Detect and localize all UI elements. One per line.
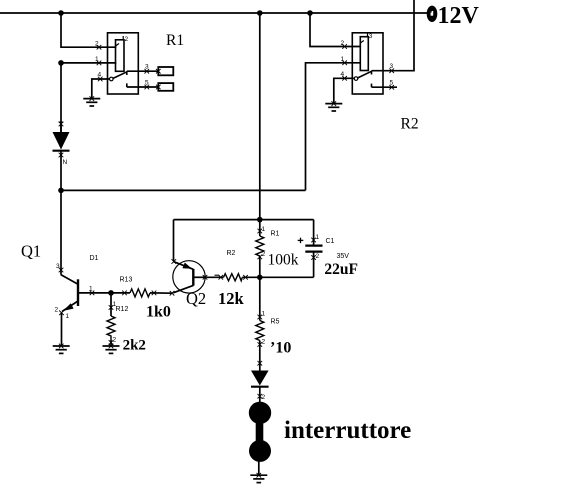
node junction dot at (61,62.9) — [58, 60, 64, 66]
interruttore switch symbol — [249, 402, 271, 424]
svg-text:4: 4 — [341, 71, 345, 78]
terminal pad rect pin5 — [158, 83, 173, 91]
wire Q2 emitter up to node — [173, 220, 175, 261]
svg-text:Q1: Q1 — [21, 242, 41, 261]
svg-text:1: 1 — [89, 286, 93, 293]
ground under R12 — [103, 346, 120, 353]
ground bottom — [250, 475, 267, 482]
pin x-mark R1 pin4 — [98, 77, 103, 82]
pin x-mark R1 pin3 — [145, 69, 150, 74]
svg-text:2: 2 — [95, 41, 99, 48]
ground under R1 pin4 — [83, 99, 100, 106]
wire to R1 coil pin1 — [61, 62, 116, 64]
svg-text:1: 1 — [262, 311, 266, 318]
wire vertical right from top edge to R2 pin3 — [392, 0, 414, 71]
svg-text:2: 2 — [262, 251, 266, 258]
capacitor C1 — [313, 220, 315, 245]
svg-text:interruttore: interruttore — [284, 417, 411, 444]
svg-text:R1: R1 — [166, 32, 184, 49]
svg-text:4: 4 — [98, 72, 102, 79]
wire rail to R2 coil pin2 — [310, 13, 360, 47]
svg-text:N: N — [63, 159, 68, 166]
wire down to Q1 collector — [60, 190, 62, 274]
resistor R2 12k horizontal — [207, 276, 224, 278]
svg-text:2: 2 — [113, 337, 117, 344]
svg-text:12V: 12V — [438, 3, 480, 29]
svg-text:1: 1 — [95, 56, 99, 63]
wire +12V top rail — [0, 12, 427, 14]
svg-text:2: 2 — [55, 307, 59, 314]
svg-text:35V: 35V — [337, 253, 350, 260]
wire node X horizontal — [174, 219, 314, 221]
svg-text:1: 1 — [341, 56, 345, 63]
relay R2 — [352, 33, 383, 94]
svg-text:R2: R2 — [401, 116, 419, 133]
wire node Y to capacitor bottom — [260, 276, 314, 278]
diode D2 — [258, 361, 263, 366]
wire horizontal node to R2 pin1 column — [61, 189, 306, 191]
terminal pad rect pin3 — [158, 67, 173, 75]
pin x-mark R1 pin1 — [97, 61, 102, 66]
wire R1 pin3 to terminal — [127, 70, 159, 72]
pin x-mark R1 pin5 — [145, 85, 150, 90]
wire R1 pin5 to terminal — [127, 86, 159, 88]
plus sign C1 — [298, 238, 304, 243]
svg-text:R12: R12 — [116, 306, 129, 313]
svg-text:R13: R13 — [120, 277, 133, 284]
svg-text:1k0: 1k0 — [146, 303, 171, 320]
node junction at (61,190.4) — [58, 188, 64, 194]
resistor R5 — [259, 277, 261, 320]
svg-text:2: 2 — [262, 394, 266, 401]
node junction at (310,13) — [307, 10, 313, 16]
node junction at (259.8,13) — [257, 10, 263, 16]
pin x-mark R2 pin2 — [342, 44, 347, 49]
svg-text:3: 3 — [145, 64, 149, 71]
wire rail down to node X — [259, 13, 261, 220]
svg-text:5: 5 — [390, 80, 394, 87]
svg-text:C1: C1 — [326, 238, 335, 245]
svg-text:D1: D1 — [90, 255, 99, 262]
svg-text:100k: 100k — [268, 252, 299, 269]
svg-text:2k2: 2k2 — [123, 337, 146, 353]
node junction at (259.8,277.3) — [257, 275, 263, 281]
svg-text:3: 3 — [56, 263, 60, 270]
svg-text:12k: 12k — [218, 289, 245, 308]
svg-text:R2: R2 — [227, 250, 236, 257]
pin x-mark R1 pin2 — [97, 45, 102, 50]
node junction at (259.8,219.6) — [257, 217, 263, 223]
svg-text:R1: R1 — [271, 230, 280, 237]
svg-text:5: 5 — [145, 80, 149, 87]
diode D1 — [59, 122, 64, 127]
node junction at Q1 base (111,292.9) — [108, 290, 114, 296]
wire left column from rail to R1 coil pin2 — [61, 13, 116, 47]
svg-text:R5: R5 — [271, 319, 280, 326]
relay R1 — [108, 33, 139, 94]
pin x-mark R2 pin3 — [389, 68, 394, 73]
wire R2 pin4 to ground — [334, 78, 355, 103]
transistor Q2 — [170, 291, 175, 296]
svg-text:Q2: Q2 — [186, 289, 206, 308]
svg-text:2: 2 — [316, 253, 320, 260]
pin x-mark R2 pin1 — [342, 61, 347, 66]
wire R2 pin5 stub — [372, 86, 398, 88]
wire R2 pin3 — [372, 70, 392, 72]
svg-text:2: 2 — [341, 40, 345, 47]
svg-text:1: 1 — [316, 234, 320, 241]
connector 12V pad — [427, 6, 438, 22]
svg-text:22uF: 22uF — [324, 261, 358, 278]
pin x-mark R2 pin4 — [342, 76, 347, 81]
svg-text:1: 1 — [262, 226, 266, 233]
ground under Q1 emitter — [53, 346, 70, 353]
pin x-mark R2 pin5 — [389, 85, 394, 90]
wire R1 pin4 to ground — [92, 79, 110, 99]
svg-text:2: 2 — [125, 36, 129, 43]
transistor Q1 — [59, 268, 64, 273]
svg-text:3: 3 — [390, 63, 394, 70]
node junction at (61,13) — [58, 10, 64, 16]
svg-text:3: 3 — [369, 33, 373, 40]
resistor R12 — [110, 293, 112, 316]
resistor R1 100k — [259, 220, 261, 236]
svg-text:2: 2 — [262, 339, 266, 346]
wire R2 coil pin1 to left node — [306, 63, 361, 191]
resistor R13 — [111, 292, 130, 294]
ground under R2 pin4 — [325, 104, 342, 111]
svg-text:1: 1 — [66, 313, 70, 320]
wire down to diode D1 — [60, 63, 62, 132]
svg-text:’10: ’10 — [270, 340, 291, 357]
